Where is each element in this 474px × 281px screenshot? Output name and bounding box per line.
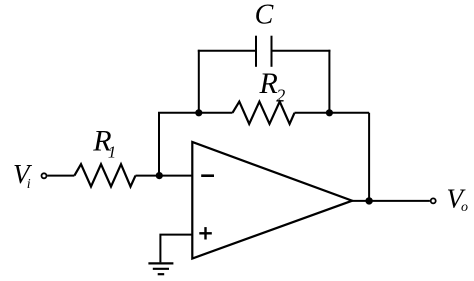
node dot at output junction [365, 197, 372, 204]
wire Vi terminal to R1 [47, 175, 74, 177]
op-amp U1 triangle [192, 142, 352, 259]
capacitor C right plate [271, 36, 273, 67]
resistor R1 [74, 164, 135, 186]
svg-text:R: R [259, 67, 278, 100]
wire output feedback vertical [368, 113, 370, 201]
output terminal Vo circle [431, 198, 436, 203]
wire capacitor top-right horizontal [272, 50, 331, 52]
wire R1 to op-amp inverting input [136, 175, 193, 177]
wire output to Vo terminal [352, 200, 430, 202]
wire feedback left vertical [158, 113, 160, 176]
wire capacitor top-left horizontal [198, 50, 256, 52]
svg-text:C: C [255, 0, 274, 31]
wire R2 to output feedback vertical [295, 112, 370, 114]
node dot at R2/C left junction [195, 109, 202, 116]
svg-text:1: 1 [108, 143, 117, 162]
svg-text:2: 2 [276, 86, 285, 106]
wire capacitor left vertical [198, 50, 200, 113]
capacitor C left plate [255, 36, 257, 67]
node dot at inverting input junction [156, 172, 163, 179]
ground [148, 263, 173, 274]
svg-text:i: i [27, 177, 31, 192]
wire op-amp non-inverting input to ground [160, 235, 192, 263]
node dot at R2/C right junction [326, 109, 333, 116]
wire capacitor right vertical [328, 50, 330, 113]
op-amp minus input sign [201, 174, 214, 177]
wire feedback top-left horizontal to R2 [158, 112, 233, 114]
resistor R2 [233, 102, 295, 124]
input terminal Vi circle [42, 173, 47, 178]
svg-text:o: o [461, 200, 468, 215]
op-amp plus input sign [199, 227, 212, 239]
